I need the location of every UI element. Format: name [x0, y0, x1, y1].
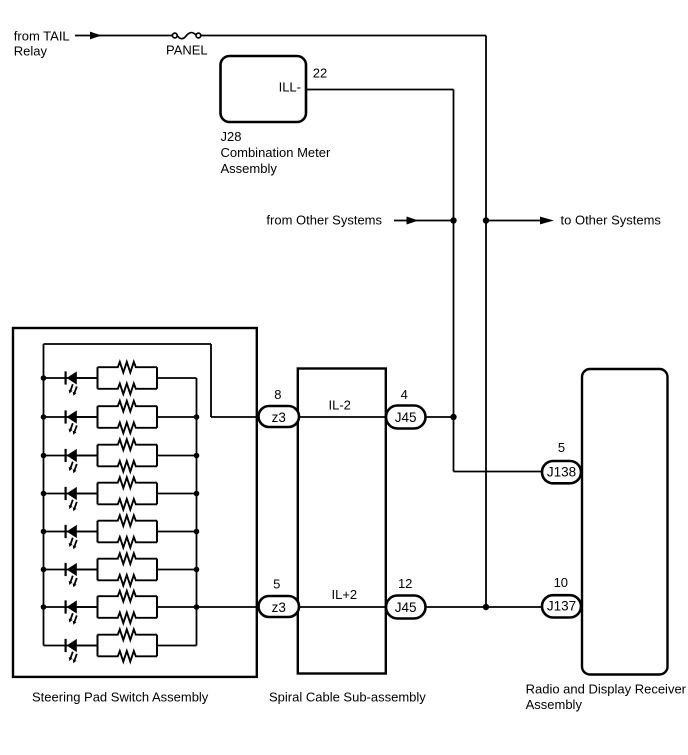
svg-text:IL-2: IL-2	[329, 398, 351, 413]
right bus junction row3	[194, 453, 200, 459]
svg-text:z3: z3	[272, 600, 286, 615]
wire ILL- from J28	[306, 89, 454, 91]
svg-text:IL+2: IL+2	[332, 587, 358, 602]
left bus junction row5	[41, 529, 47, 535]
LED/resistor row 8	[44, 629, 197, 663]
svg-text:Assembly: Assembly	[526, 697, 583, 712]
wire steering top bus	[44, 343, 212, 345]
right bus junction row7	[194, 604, 200, 610]
arrowhead to Other Systems	[540, 217, 554, 225]
svg-text:Steering Pad Switch Assembly: Steering Pad Switch Assembly	[32, 690, 209, 705]
svg-text:22: 22	[313, 66, 327, 81]
svg-text:Relay: Relay	[14, 43, 48, 58]
left bus junction row6	[41, 567, 47, 573]
svg-text:5: 5	[558, 440, 565, 455]
LED/resistor row 2	[44, 401, 197, 435]
wire z3 pin8 drop	[210, 344, 212, 417]
LED/resistor row 4	[44, 477, 197, 511]
svg-text:Combination Meter: Combination Meter	[221, 145, 331, 160]
svg-text:Assembly: Assembly	[221, 161, 278, 176]
svg-text:PANEL: PANEL	[166, 42, 208, 57]
svg-text:4: 4	[401, 387, 408, 402]
svg-text:10: 10	[554, 575, 568, 590]
svg-text:Spiral Cable Sub-assembly: Spiral Cable Sub-assembly	[269, 690, 426, 705]
svg-text:J45: J45	[395, 600, 417, 615]
LED/resistor row 7	[44, 591, 197, 625]
LED/resistor row 5	[44, 515, 197, 549]
svg-text:J45: J45	[395, 410, 417, 425]
svg-text:from Other Systems: from Other Systems	[266, 212, 382, 227]
left bus junction row2	[41, 414, 47, 420]
junction node B2	[483, 604, 489, 610]
wire fuse to node B corner	[201, 35, 486, 37]
svg-text:z3: z3	[272, 410, 286, 425]
fuse PANEL circle left	[172, 33, 177, 38]
wire vertical net B x=486	[485, 36, 487, 608]
right bus junction row5	[194, 529, 200, 535]
svg-text:J137: J137	[547, 599, 576, 614]
junction node A1	[450, 217, 456, 223]
LED/resistor row 1	[44, 362, 197, 396]
wire net A to J138	[454, 471, 543, 473]
right bus junction row6	[194, 567, 200, 573]
fuse PANEL wave	[178, 33, 196, 39]
svg-text:J28: J28	[221, 129, 242, 144]
wire from TAIL relay to fuse	[75, 35, 172, 37]
left bus junction row1	[41, 375, 47, 381]
svg-text:Radio and Display Receiver: Radio and Display Receiver	[526, 682, 687, 697]
wire steering right bus	[196, 378, 198, 646]
LED/resistor row 6	[44, 553, 197, 587]
right bus junction row2	[194, 414, 200, 420]
junction node A2	[450, 414, 456, 420]
connector J137 pin 10	[542, 595, 581, 617]
arrowhead from TAIL	[90, 32, 102, 40]
wire from Other Systems arrow line	[394, 220, 454, 222]
left bus junction row3	[41, 453, 47, 459]
connector z3 pin 5	[259, 596, 300, 617]
box Spiral Cable Sub-assembly	[298, 369, 386, 674]
connector z3 pin 8	[259, 406, 300, 427]
svg-text:from TAIL: from TAIL	[14, 29, 70, 44]
fuse PANEL circle right	[196, 33, 201, 38]
svg-text:J138: J138	[547, 465, 576, 480]
box J28 Combination Meter Assembly	[221, 56, 307, 122]
LED/resistor row 3	[44, 439, 197, 473]
wire to Other Systems arrow line	[486, 220, 543, 222]
svg-text:to Other Systems: to Other Systems	[561, 212, 662, 227]
wire IL+2 row to J137	[197, 606, 543, 608]
junction node B1	[483, 217, 489, 223]
right bus junction row4	[194, 491, 200, 497]
wire vertical net A x=453.5	[453, 90, 455, 472]
connector J45 pin 4	[386, 406, 426, 429]
wire steering left bus	[43, 344, 45, 646]
svg-text:5: 5	[273, 577, 280, 592]
box Radio and Display Receiver Assembly	[582, 369, 668, 675]
box Steering Pad Switch Assembly	[13, 328, 257, 677]
left bus junction row7	[41, 604, 47, 610]
svg-text:12: 12	[398, 576, 412, 591]
connector J138 pin 5	[542, 461, 581, 483]
svg-text:8: 8	[274, 387, 281, 402]
arrowhead from Other Systems	[407, 217, 419, 225]
left bus junction row4	[41, 491, 47, 497]
wire IL-2 row	[211, 416, 454, 418]
svg-text:ILL-: ILL-	[279, 80, 301, 95]
connector J45 pin 12	[386, 596, 426, 619]
